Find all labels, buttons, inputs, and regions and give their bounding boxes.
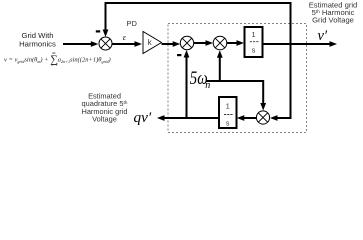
svg-text:s: s [226, 119, 230, 128]
svg-text:n=1: n=1 [52, 63, 58, 67]
svg-text:Harmonics: Harmonics [19, 40, 56, 49]
svg-text:∞: ∞ [52, 52, 56, 57]
svg-text:Voltage: Voltage [92, 115, 117, 124]
svg-text:n: n [205, 80, 210, 91]
svg-text:s: s [252, 46, 256, 55]
svg-text:1: 1 [252, 30, 256, 39]
svg-text:qv′: qv′ [134, 109, 152, 126]
svg-text:1: 1 [226, 102, 230, 111]
svg-text:v′: v′ [318, 28, 328, 44]
svg-text:Grid Voltage: Grid Voltage [312, 15, 354, 24]
svg-text:PD: PD [127, 19, 138, 28]
svg-text:k: k [148, 38, 152, 47]
